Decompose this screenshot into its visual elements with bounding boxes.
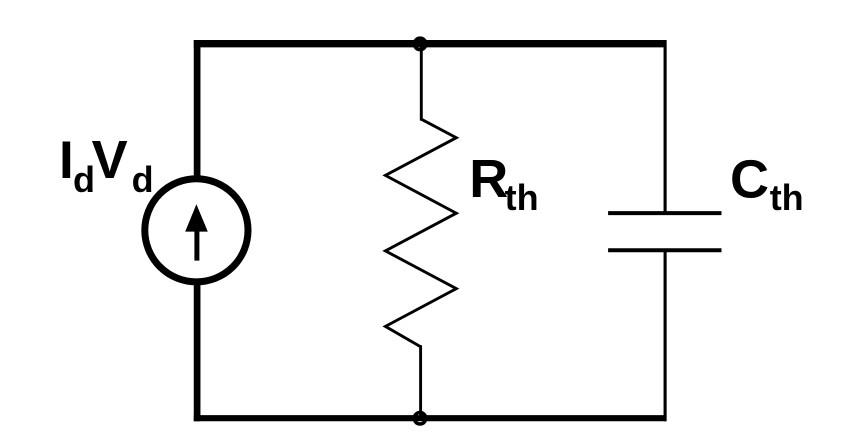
wire top (194, 40, 667, 47)
wire resistor top lead (420, 44, 423, 121)
resistor Rth (385, 119, 456, 347)
node junction bottom (414, 413, 426, 425)
svg-text:th: th (770, 177, 804, 218)
wire bottom (194, 415, 667, 421)
capacitor Cth (608, 213, 721, 250)
svg-text:d: d (132, 159, 154, 200)
wire resistor bottom lead (419, 345, 422, 418)
wire left (194, 40, 201, 421)
node junction top (414, 38, 426, 50)
label Rth (469, 149, 538, 218)
svg-text:th: th (505, 177, 539, 218)
svg-text:I: I (59, 131, 74, 190)
svg-text:V: V (92, 130, 128, 190)
wire right upper (664, 40, 667, 213)
current source IdVd (145, 179, 248, 282)
label IdVd (59, 130, 154, 200)
svg-text:C: C (730, 149, 769, 209)
label Cth (730, 149, 804, 218)
svg-text:R: R (469, 149, 508, 209)
wire right lower (664, 250, 667, 421)
